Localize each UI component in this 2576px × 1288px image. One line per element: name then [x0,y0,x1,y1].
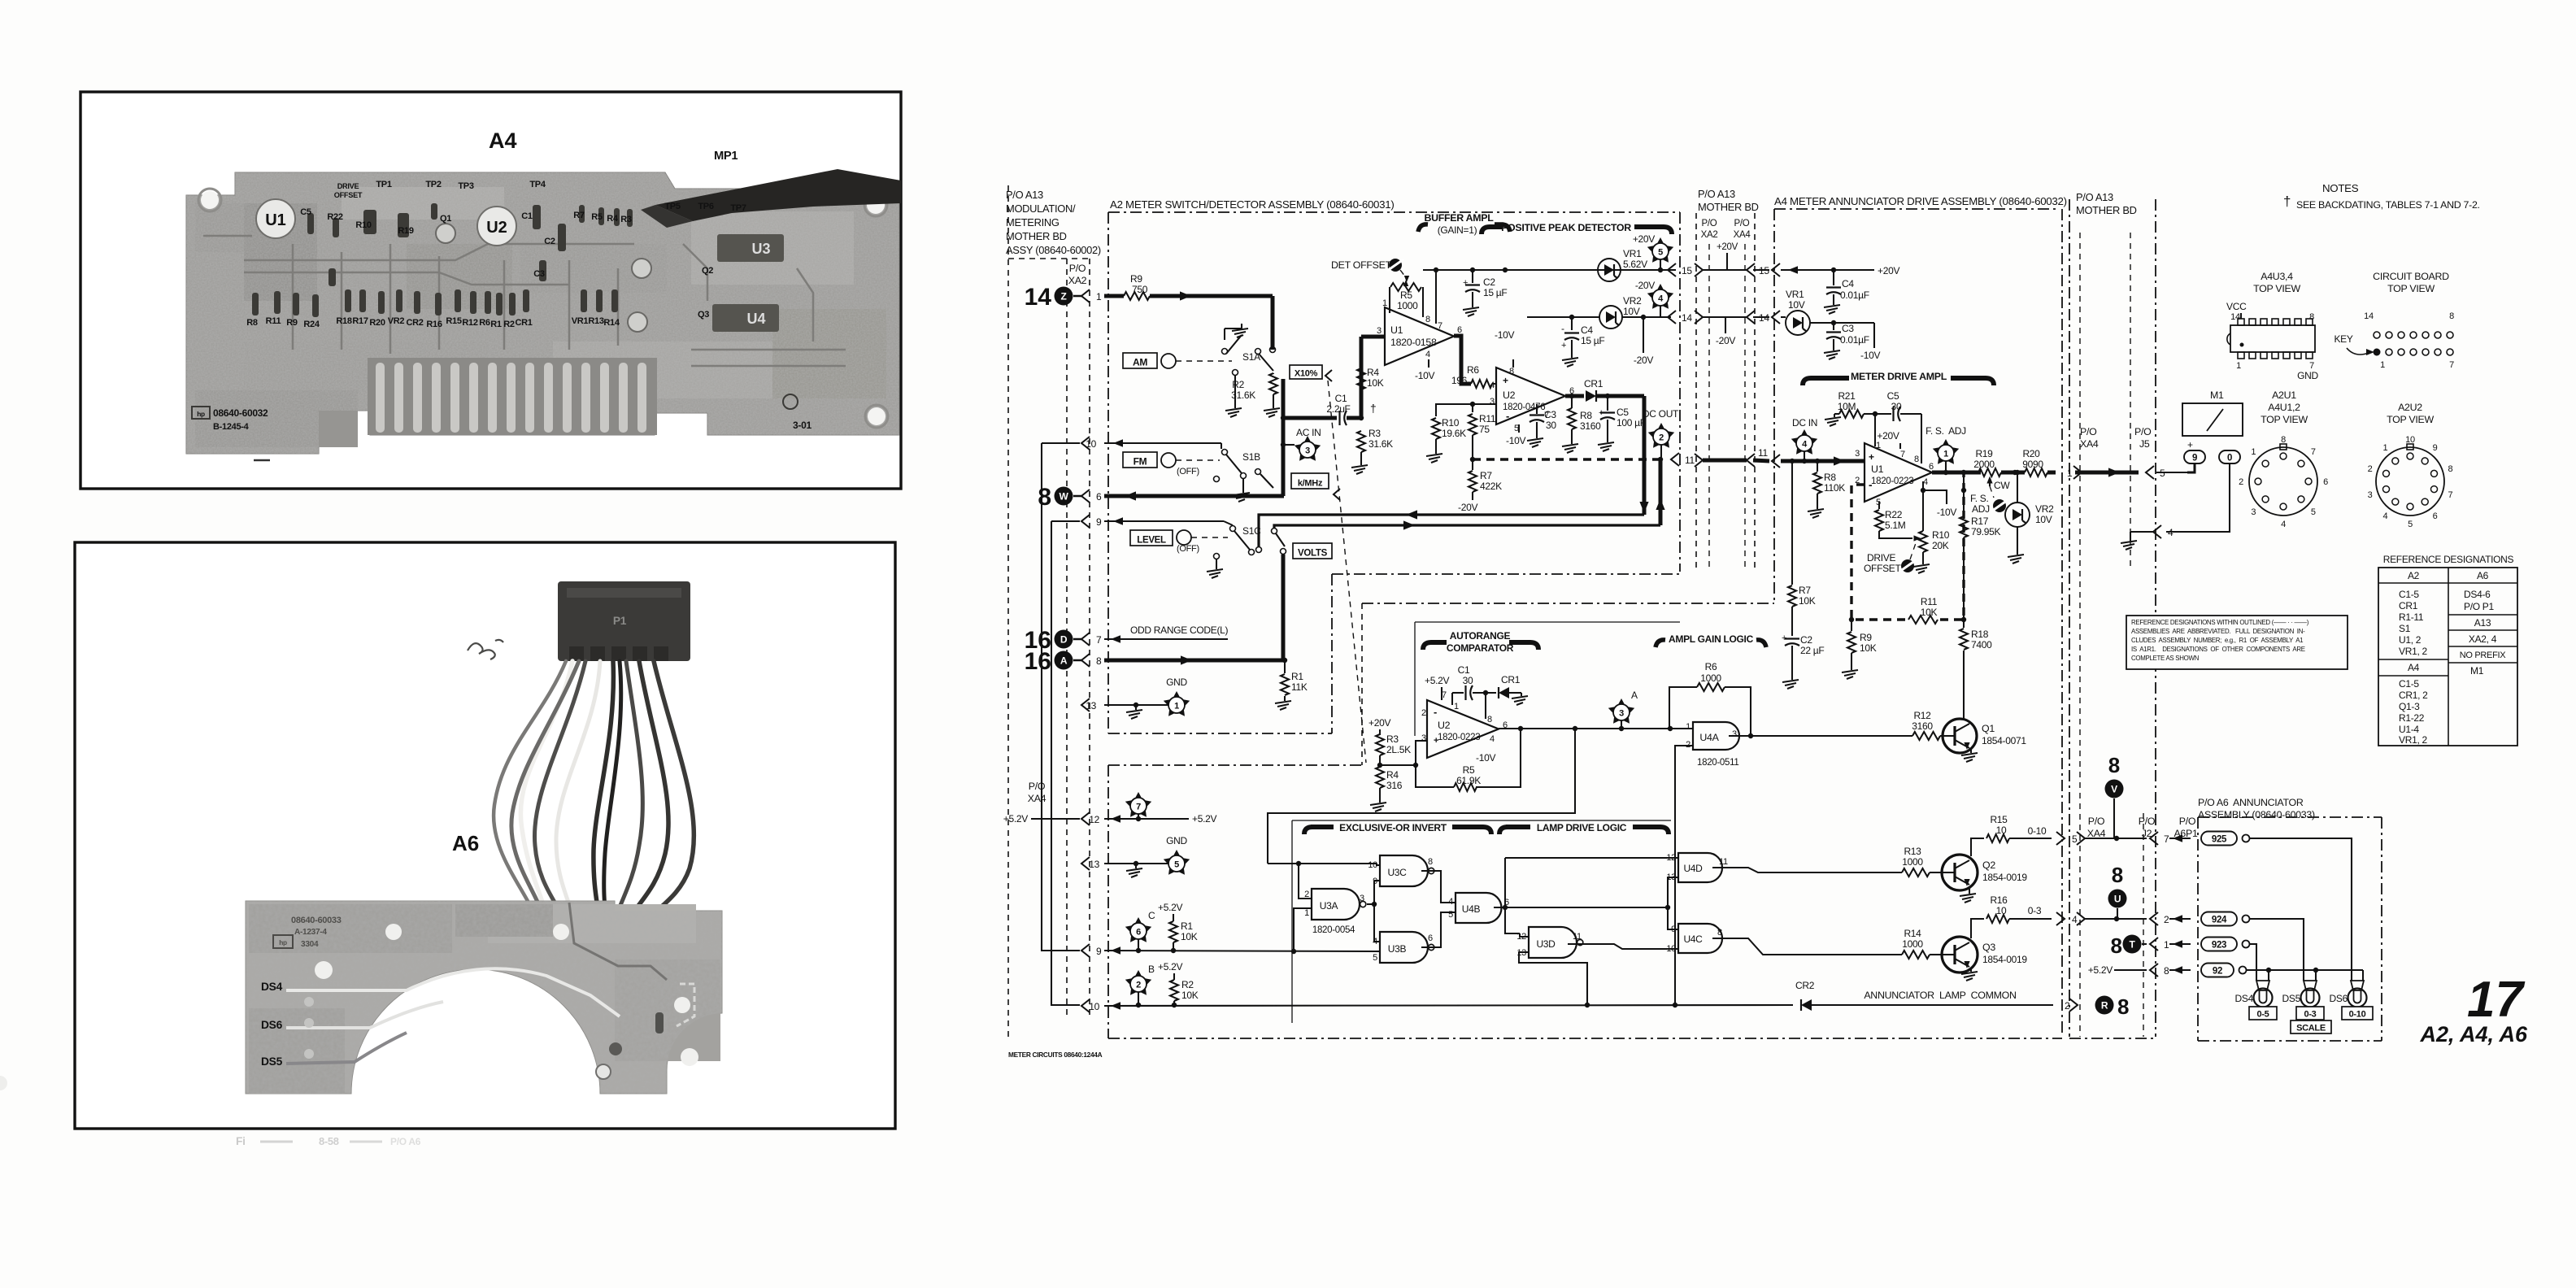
capacitor C1 2.2uF [1283,393,1376,425]
svg-text:TOP VIEW: TOP VIEW [2261,414,2308,425]
svg-text:P/O A6: P/O A6 [390,1136,421,1147]
svg-text:U1: U1 [265,211,286,229]
svg-text:MOTHER BD: MOTHER BD [2076,204,2137,216]
svg-text:COMPARATOR: COMPARATOR [1447,642,1514,654]
ground below R8 110K [1808,504,1824,518]
svg-text:OFFSET: OFFSET [334,191,363,199]
svg-text:R11: R11 [1921,596,1938,607]
svg-text:+: + [1599,408,1603,418]
svg-text:Q1: Q1 [440,214,451,224]
svg-text:10K: 10K [1367,377,1384,389]
A4 silkscreen labels [246,180,746,329]
svg-text:5.62V: 5.62V [1623,259,1647,270]
photo frame A4 board [80,92,901,489]
svg-text:15 µF: 15 µF [1483,287,1507,298]
svg-text:J2: J2 [2142,828,2152,839]
xor top rail [1268,863,1377,864]
svg-text:DC OUT: DC OUT [1643,408,1679,420]
svg-text:R12: R12 [1913,710,1931,721]
svg-text:VOLTS: VOLTS [1298,549,1328,559]
resistor R4 316 [1376,767,1403,798]
A13 modulation/metering mother bd assy dashed border [1007,185,1009,1039]
U3D out wire [1568,944,1678,949]
op-amp U1 meter drive [1855,441,1934,507]
svg-text:U4A: U4A [1699,732,1719,743]
svg-text:1: 1 [1096,291,1102,302]
svg-text:-: - [1434,706,1437,718]
gate U4C [1666,924,1722,954]
resistor R19 2000 pot [1973,448,2025,491]
svg-text:11: 11 [1573,932,1582,942]
svg-text:Q3: Q3 [698,310,709,320]
ground below VR2 A4 [2008,550,2024,563]
wire row9 [1081,515,1224,528]
A4 can U2 [477,207,516,246]
svg-text:T: T [2129,939,2135,951]
svg-text:196: 196 [1451,375,1468,386]
svg-text:7: 7 [2164,833,2169,845]
svg-text:R22: R22 [1885,509,1903,520]
svg-text:CR1: CR1 [515,318,532,328]
ground below C3 [1527,433,1543,447]
svg-text:TP6: TP6 [698,202,713,211]
svg-text:3: 3 [2368,490,2373,500]
svg-text:R15: R15 [446,316,461,326]
svg-text:R6: R6 [1705,661,1717,672]
svg-text:EXCLUSIVE-OR INVERT: EXCLUSIVE-OR INVERT [1339,822,1447,833]
star +20V 5 [1633,233,1673,270]
svg-text:14: 14 [1025,284,1052,311]
svg-text:P/O: P/O [1029,781,1046,792]
diode CR2 [1795,980,1815,1011]
svg-text:7: 7 [2311,447,2316,457]
row15 mid wires [1695,263,1769,276]
svg-text:U: U [2114,894,2121,905]
svg-text:0-3: 0-3 [2304,1010,2317,1020]
svg-text:C2: C2 [544,237,555,246]
pin 13 chevron XA2 (gnd) [1081,698,1090,711]
star AC IN 3 [1295,427,1321,461]
row12 +5.2V [1003,812,1217,825]
svg-text:13: 13 [1086,700,1096,711]
svg-text:1: 1 [1304,908,1309,918]
svg-text:A6P1: A6P1 [2173,828,2198,839]
svg-text:C1: C1 [1335,393,1347,404]
svg-text:C: C [1148,910,1155,921]
svg-text:8: 8 [2309,312,2314,322]
svg-text:3160: 3160 [1580,420,1601,432]
svg-text:J5: J5 [2139,438,2150,450]
svg-text:+5.2V: +5.2V [1192,813,1216,825]
svg-text:VR2: VR2 [2035,503,2054,515]
A4 component bodies [252,203,651,332]
resistor R11 10K A4 [1908,596,1938,624]
svg-text:R9: R9 [1860,632,1872,643]
ground below C4 [1562,353,1578,367]
svg-text:8: 8 [2117,994,2129,1019]
tag R8 annunciator [2095,996,2114,1015]
capacitor C3 0.01uF A4 [1826,323,1869,348]
svg-text:Q1: Q1 [1982,723,1995,734]
row11 A4 side [1772,455,1865,468]
svg-text:VR1: VR1 [1786,289,1804,300]
svg-text:9090: 9090 [2022,459,2043,470]
svg-text:4: 4 [1490,381,1495,390]
svg-text:08640-60032: 08640-60032 [213,407,268,419]
svg-text:MOTHER BD: MOTHER BD [1698,201,1759,213]
svg-text:R9: R9 [1130,273,1142,285]
X10% box [1290,365,1322,379]
svg-text:A2 METER SWITCH/DETECTOR ASSEM: A2 METER SWITCH/DETECTOR ASSEMBLY (08640… [1110,198,1394,211]
row14 A4 side [1772,311,1786,324]
svg-text:X10%: X10% [1295,369,1318,379]
diode CR1 autorange [1499,674,1521,698]
svg-text:GND: GND [1166,835,1187,846]
svg-text:DS4: DS4 [2235,993,2254,1004]
thick line to DC OUT upper [1259,515,1644,546]
header BUFFER AMPL [1418,212,1510,236]
svg-text:-20V: -20V [1634,355,1653,366]
svg-text:7: 7 [1438,321,1442,331]
svg-text:R20: R20 [369,318,385,328]
resistor R3 21.5K autorange [1376,733,1411,768]
svg-text:10: 10 [1996,905,2007,916]
ground below LEVEL off [1207,564,1223,578]
svg-text:R2: R2 [503,320,515,329]
header LAMP DRIVE LOGIC [1499,822,1669,834]
svg-text:79.95K: 79.95K [1971,526,2001,537]
wire row10 left drop [1042,443,1080,951]
svg-text:TP7: TP7 [730,203,746,213]
capacitor C3 30 [1529,404,1556,433]
zener VR1 A4 [1786,311,1810,335]
svg-text:R10: R10 [1442,417,1460,429]
resistor R11 75 [1469,413,1496,459]
svg-text:ASSEMBLY (08640-60033): ASSEMBLY (08640-60033) [2198,809,2315,820]
pin8 stub U2 [1512,359,1514,368]
oval 92 [2201,964,2234,977]
svg-text:-10V: -10V [1937,507,1956,518]
svg-text:LEVEL: LEVEL [1137,536,1166,546]
svg-text:DRIVE: DRIVE [1867,552,1895,563]
ground right of CR1 [1512,693,1528,705]
svg-text:B-1245-4: B-1245-4 [213,422,250,432]
svg-text:C1-5: C1-5 [2399,589,2419,600]
AM pushbutton [1123,353,1157,368]
svg-text:B: B [1148,964,1155,975]
svg-text:0: 0 [2227,454,2232,463]
svg-text:1: 1 [1943,450,1948,459]
svg-text:8: 8 [2449,311,2454,321]
svg-text:0-3: 0-3 [2028,905,2042,916]
svg-text:R3: R3 [620,215,632,224]
resistor R21 10M [1834,390,1878,418]
svg-text:R14: R14 [603,318,620,328]
svg-text:R8: R8 [1580,410,1592,421]
A4 IC U3 [717,234,784,262]
svg-text:10K: 10K [1921,607,1938,618]
resistor R12 3160 [1773,710,1943,740]
thick input bus [1360,337,1364,418]
svg-text:3: 3 [1305,446,1310,456]
autorange section thin border [1415,622,1680,736]
wire pin3 autorange [1380,741,1427,765]
svg-text:CR1: CR1 [1501,674,1521,685]
ground below R8 [1562,439,1578,453]
thick line to DC OUT lower [1274,525,1660,528]
comparator out to XOR [1268,729,1575,864]
LEVEL pushbutton [1130,530,1173,546]
svg-text:-10V: -10V [1860,350,1880,361]
resistor R20 9090 [2012,448,2056,476]
svg-text:ASSY (08640-60002): ASSY (08640-60002) [1006,244,1101,256]
U1 output wire [1932,471,1981,475]
svg-text:8: 8 [2108,753,2120,777]
svg-text:6: 6 [2433,511,2438,521]
ground below R1 [1275,696,1291,710]
resistor R5 1000 feedback [1390,280,1423,317]
svg-text:7: 7 [1096,634,1102,646]
svg-text:CW: CW [1994,480,2010,491]
svg-text:2: 2 [1304,890,1309,899]
resistor R14 1000 [1902,928,1942,959]
row 0-3 chevrons [2056,912,2191,925]
svg-text:+5.2V: +5.2V [1158,902,1182,913]
svg-text:5: 5 [1373,953,1377,963]
svg-text:1820-0158: 1820-0158 [1390,337,1437,348]
pin 15 chevron left [1668,263,1676,276]
svg-text:R5: R5 [591,212,603,222]
chevron 5 J5 [2146,466,2154,479]
gate U3B [1373,932,1434,963]
svg-text:P/O: P/O [1734,219,1750,228]
svg-text:ADJ: ADJ [1972,503,1990,515]
resistor R16 10 [1986,894,2052,923]
thick bus X10 to AC IN [1281,379,1286,496]
svg-text:9: 9 [2433,443,2438,453]
svg-text:8-58: 8-58 [319,1135,339,1147]
svg-text:3304: 3304 [301,940,319,949]
svg-text:R12: R12 [462,318,477,328]
svg-text:8: 8 [1038,484,1051,511]
U3C out wire [1421,871,1456,903]
svg-text:S1B: S1B [1242,451,1260,463]
svg-text:R1-11: R1-11 [2399,611,2424,623]
S1C switch [1230,525,1262,555]
pin 6 chevron XA2 [1081,490,1090,503]
svg-text:11K: 11K [1291,681,1308,693]
svg-text:924: 924 [2212,916,2227,925]
svg-text:+: + [1463,278,1468,288]
header AMPL GAIN LOGIC [1656,633,1766,647]
svg-text:DS4: DS4 [261,981,283,993]
svg-text:A6: A6 [452,831,479,855]
svg-text:8: 8 [2164,965,2169,977]
DET OFFSET adjust [1331,259,1409,282]
svg-text:U1, 2: U1, 2 [2399,634,2422,646]
svg-text:13: 13 [1089,859,1099,870]
A4 part number [192,407,268,432]
svg-text:8: 8 [1487,715,1492,724]
A2 assembly dash-dot border [1108,212,1680,733]
svg-text:R13: R13 [1904,846,1921,857]
svg-text:15: 15 [1759,265,1769,276]
svg-text:A2U1: A2U1 [2272,389,2296,401]
ground below C4 A4 [1824,302,1840,314]
svg-text:5: 5 [1448,910,1453,920]
svg-text:(GAIN=1): (GAIN=1) [1438,224,1477,236]
svg-text:R16: R16 [426,320,442,329]
svg-text:3: 3 [1377,326,1382,336]
resistor R6 196 [1451,364,1496,390]
svg-text:NOTES: NOTES [2322,182,2359,194]
label P/O XA4 / P/O J5 (right col top) [2080,426,2152,450]
pin 1 chevron XA2 [1081,289,1090,302]
svg-text:VR1, 2: VR1, 2 [2399,734,2428,746]
svg-text:C5: C5 [300,207,311,217]
svg-text:1820-0511: 1820-0511 [1697,758,1738,768]
svg-text:R13: R13 [588,316,603,326]
svg-text:R11: R11 [1479,413,1496,424]
svg-text:3: 3 [1490,397,1495,407]
svg-text:+5.2V: +5.2V [1158,961,1182,973]
svg-text:0-10: 0-10 [2028,825,2047,837]
svg-text:10V: 10V [2035,514,2052,525]
star DC OUT 2 [1643,408,1679,459]
scale box 0-10 [2342,1007,2373,1020]
svg-text:1: 1 [1174,702,1179,711]
svg-text:R11: R11 [266,316,281,326]
svg-text:KEY: KEY [2334,333,2352,345]
resistor R6 1000 hysteresis [1669,661,1751,734]
svg-text:C4: C4 [1842,278,1854,289]
svg-text:R16: R16 [1990,894,2008,906]
oval 923 [2201,938,2237,951]
svg-text:R17: R17 [352,316,368,326]
pot R10 20K [1914,490,1950,559]
svg-text:+20V: +20V [1368,717,1390,729]
pin 11 chevron left [1671,453,1679,466]
ground below R4 [1370,798,1386,812]
ground below C2 22uF [1782,675,1799,689]
svg-text:7: 7 [2449,360,2454,370]
op-amp U2 autorange [1421,690,1508,764]
ground below S1A pole [1225,403,1242,417]
FM pushbutton [1123,452,1157,468]
svg-text:U3B: U3B [1388,943,1407,955]
scale box 0-3 [2296,1007,2324,1020]
resistor R18 7400 [1960,617,1992,719]
circuit board pin grid [2374,332,2454,356]
svg-text:R5: R5 [1400,289,1412,301]
svg-text:C2: C2 [1800,634,1812,646]
svg-text:XA2: XA2 [1701,230,1718,240]
svg-text:A2U2: A2U2 [2398,402,2422,413]
svg-text:-10V: -10V [1415,370,1434,381]
svg-text:5: 5 [2311,507,2316,517]
svg-text:75: 75 [1479,424,1490,435]
svg-text:14: 14 [1682,312,1692,324]
op-amp U2 peak detector [1490,367,1574,433]
label P/O A13 modulation assy [1006,189,1101,256]
svg-text:R1: R1 [490,320,502,329]
svg-text:4: 4 [2168,527,2173,538]
A6 PCB photo board [246,901,722,1094]
svg-text:-: - [1561,323,1564,334]
ground below J5 pin4 [2121,538,2137,550]
svg-text:10K: 10K [1860,642,1877,654]
svg-text:P/O A13: P/O A13 [2076,191,2113,203]
XA4-J2 column bottom border [2069,1038,2156,1039]
svg-text:-10V: -10V [1506,435,1525,446]
svg-text:R22: R22 [327,212,342,222]
gate U3A [1304,889,1366,935]
svg-text:8: 8 [1428,857,1433,867]
svg-text:P/O: P/O [2080,426,2097,437]
svg-text:AC IN: AC IN [1296,427,1321,438]
pin4 -10V wire [1923,490,1947,504]
row15 A4 side [1772,263,1834,276]
U3A input1 wire [1294,908,1312,951]
U3A out node [1367,903,1374,905]
star GND 1 [1164,677,1190,716]
svg-text:R1: R1 [1291,671,1303,682]
svg-text:U3D: U3D [1536,938,1556,950]
svg-text:1: 1 [2164,939,2169,951]
ground above S1A [1232,324,1248,337]
svg-text:A2: A2 [2408,570,2420,581]
svg-text:1820-0054: 1820-0054 [1312,925,1355,935]
header POSITIVE PEAK DETECTOR [1482,222,1672,234]
svg-text:8: 8 [2281,435,2286,445]
svg-text:17: 17 [2467,972,2525,1028]
svg-text:SCALE: SCALE [2296,1024,2326,1033]
svg-text:1820-0223: 1820-0223 [1438,733,1480,742]
A6 assembly dash-dot border [2198,817,2382,1041]
right mother-board column dashed borders [2069,199,2156,1037]
svg-text:3160: 3160 [1912,720,1933,732]
svg-text:+: + [1561,341,1566,350]
wire pin1 up [1451,693,1453,705]
svg-text:A6: A6 [2477,570,2489,581]
svg-text:V: V [2111,784,2117,795]
wafer tick kMHz [1334,489,1340,500]
ground S1B [1234,488,1250,502]
capacitor C5 30 A4 [1875,390,1921,463]
switch gang dashed line [1328,381,1366,763]
svg-text:METERING: METERING [1006,216,1060,228]
gate U4B [1448,893,1509,923]
svg-text:Q2: Q2 [1982,859,1995,871]
U4B out wires [1494,907,1668,908]
reference designations table [2378,554,2517,746]
ground below R10 20K [1913,559,1930,573]
reference designation note [2126,616,2348,669]
svg-text:†: † [2283,194,2291,209]
svg-text:U4C: U4C [1683,933,1703,945]
svg-text:A4U1,2: A4U1,2 [2268,402,2300,413]
header AUTORANGE COMPARATOR [1423,630,1538,654]
svg-text:U2: U2 [1503,389,1516,401]
svg-text:16: 16 [1025,648,1051,675]
thick vertical DC OUT drops [1639,396,1664,525]
transistor Q1 [1943,719,1977,753]
svg-text:ODD RANGE CODE(L): ODD RANGE CODE(L) [1130,624,1229,636]
svg-text:METER DRIVE AMPL: METER DRIVE AMPL [1851,371,1947,382]
svg-text:ANNUNCIATOR LAMP COMMON: ANNUNCIATOR LAMP COMMON [1864,990,2016,1001]
+5.2V C1 CR1 row [1425,664,1496,700]
svg-text:A-1237-4: A-1237-4 [294,928,327,937]
